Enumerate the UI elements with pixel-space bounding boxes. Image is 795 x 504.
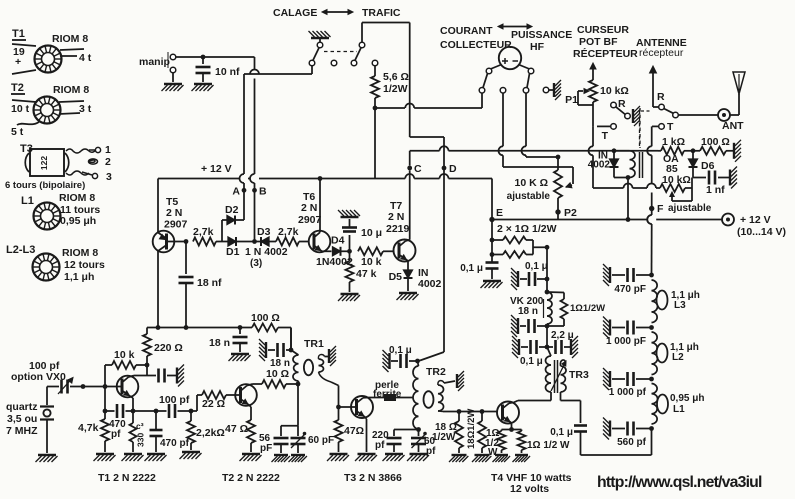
capacitor 100 pf VXO (variable) (47, 378, 105, 395)
svg-text:4002: 4002 (418, 278, 442, 290)
svg-text:3: 3 (106, 171, 112, 183)
svg-text:2,7k: 2,7k (278, 226, 299, 238)
capacitor 560 pf (612, 422, 654, 449)
svg-text:TR2: TR2 (426, 366, 446, 378)
svg-text:1 kΩ: 1 kΩ (662, 136, 685, 148)
ground (18 ohm a) (449, 455, 468, 462)
svg-text:CURSEUR: CURSEUR (577, 24, 629, 36)
potentiometer P1 10 k ohm (565, 63, 629, 126)
node F (649, 203, 664, 215)
svg-text:0,1 μ: 0,1 μ (460, 263, 483, 274)
ground (60 pF) (289, 455, 307, 462)
ground (100 ohm) (734, 140, 741, 162)
meter terminal left (483, 68, 492, 87)
wire (shunt to meter) (373, 93, 482, 110)
svg-text:2 N: 2 N (388, 211, 404, 223)
switch contact T (right) (652, 121, 674, 133)
svg-text:1 000 pf: 1 000 pf (609, 387, 647, 398)
capacitor 0,1 u (TR3) (520, 326, 549, 367)
svg-text:122: 122 (39, 156, 49, 170)
capacitor 18 nf (179, 239, 223, 327)
svg-text:+ 12 V: + 12 V (740, 214, 771, 226)
svg-text:470 pf: 470 pf (160, 438, 190, 449)
diode D1 (216, 237, 288, 269)
svg-text:100 Ω: 100 Ω (251, 312, 280, 324)
node E (489, 207, 503, 222)
svg-text:P2: P2 (564, 207, 577, 219)
ground (2,2k) (180, 452, 202, 459)
svg-text:10 k: 10 k (114, 349, 135, 361)
svg-text:7 MHZ: 7 MHZ (6, 425, 38, 437)
svg-text:manip: manip (139, 56, 170, 68)
ground (0,1 u PA) (511, 268, 518, 290)
choke VK 200 (510, 279, 552, 324)
connector +12V input (722, 214, 786, 239)
meter contact right (523, 88, 529, 94)
svg-text:330: 330 (136, 433, 146, 447)
svg-text:RIOM 8: RIOM 8 (62, 247, 98, 259)
diode IN 4002 (relay) (588, 148, 628, 177)
label COURANT COLLECTEUR (440, 25, 512, 51)
svg-text:récepteur: récepteur (639, 47, 684, 59)
wire hop (manip over contact wire) (250, 70, 259, 75)
svg-text:RÉCEPTEUR: RÉCEPTEUR (573, 47, 638, 60)
svg-text:220 Ω: 220 Ω (154, 342, 183, 354)
resistor 1 ohm a (490, 237, 533, 244)
capacitor 10 nf (196, 55, 241, 82)
resistor C3 330 (emitter) (130, 409, 146, 452)
svg-text:ANT: ANT (722, 120, 744, 132)
ground (60 pf TR2) (407, 454, 429, 461)
svg-text:PUISSANCE: PUISSANCE (511, 29, 572, 41)
svg-text:CALAGE: CALAGE (273, 7, 317, 19)
svg-text:4002: 4002 (588, 160, 611, 171)
capacitor 0,1 u (E) (460, 263, 498, 280)
svg-text:47Ω: 47Ω (344, 425, 364, 437)
svg-text:COURANT: COURANT (440, 25, 493, 37)
svg-text:4,7k: 4,7k (78, 422, 99, 434)
ground (quartz) (36, 455, 58, 462)
capacitor 1000 pF (606, 321, 654, 348)
svg-text:D3: D3 (257, 226, 271, 238)
svg-text:10 nf: 10 nf (215, 66, 240, 78)
ground (47 k) (338, 294, 360, 301)
transistor T7 2N2219 (386, 171, 416, 271)
resistor 18 ohm 1/2W b (459, 409, 486, 453)
arrow (recepteur) (650, 66, 657, 107)
inductor L1 (toroid legend) (21, 192, 100, 230)
capacitor 1 nf (693, 171, 729, 197)
svg-text:60 pF: 60 pF (308, 435, 334, 446)
switch contact 1 (309, 60, 315, 66)
capacitor 56 pF (259, 426, 289, 454)
svg-text:2,7k: 2,7k (193, 226, 214, 238)
ground (10 u, inverted) (338, 210, 360, 217)
svg-text:47 Ω: 47 Ω (225, 423, 248, 435)
resistor 2,7k (T5) (193, 226, 216, 246)
resistor 47 ohm (T3 base) (335, 405, 365, 452)
ground (18 n PA) (511, 315, 518, 337)
svg-text:2 × 1Ω 1/2W: 2 × 1Ω 1/2W (497, 223, 557, 235)
node (VXO wire) (81, 384, 86, 389)
ground (TR1 secondary) (329, 346, 336, 366)
switch contact T (left) (597, 124, 616, 142)
svg-text:R: R (618, 98, 626, 110)
capacitor 18 n (TR1) (268, 328, 293, 370)
switch pole (left, to hatch) (616, 106, 640, 126)
svg-text:1/2W: 1/2W (432, 432, 456, 443)
inductor L2 (filter) (652, 332, 699, 375)
ground (0,1 u TR3) (512, 336, 519, 358)
resistor 100 ohm (driver feed) (240, 312, 291, 350)
svg-text:2 N: 2 N (166, 207, 182, 219)
resistor 47 k (346, 251, 377, 292)
label RIOM 8 (T1) (52, 33, 88, 45)
ground (47 ohm T3) (327, 454, 349, 461)
transistor T1 2N2222 (98, 376, 156, 485)
credit URL (597, 474, 762, 491)
svg-text:T1: T1 (12, 28, 25, 40)
capacitor 10 u (T7 base) (342, 219, 382, 254)
svg-text:5 t: 5 t (11, 126, 24, 138)
resistor 18 ohm 1/2W a (432, 409, 463, 453)
ground (1 ohm a) (493, 455, 511, 462)
node (TR2 primary bottom) (416, 427, 421, 432)
svg-text:2907: 2907 (298, 214, 322, 226)
ground (T3 emitter) (355, 454, 377, 461)
connector ANT (718, 109, 744, 132)
mechanical link (switch, dashed) (324, 51, 357, 53)
svg-text:470 pF: 470 pF (614, 284, 646, 295)
svg-text:D1: D1 (226, 246, 240, 258)
diode D4 1N4002 (316, 235, 353, 269)
ground (manip) (162, 84, 184, 91)
ground (18 n osc) (229, 354, 251, 361)
ground (560 pf) (603, 418, 610, 440)
wire (relay to +12V rail) (626, 178, 631, 222)
capacitor 220 pf (372, 429, 419, 452)
capacitor 470 pF (612, 268, 654, 295)
resistor 220 ohm (143, 328, 183, 377)
svg-text:E: E (496, 207, 503, 219)
capacitor 2,2 u (547, 330, 574, 354)
switch contact R (left) (611, 98, 626, 110)
transformer TR2 (413, 361, 459, 429)
wire (keyed supply rail) (147, 325, 240, 330)
node C (407, 163, 422, 175)
transformer T2 (toroid legend) (11, 82, 92, 138)
quartz 3,5 ou 7 MHZ (6, 387, 54, 454)
wire (+12V rail) (158, 174, 492, 220)
ground (47 ohm T2) (240, 454, 262, 461)
svg-text:T: T (602, 130, 609, 142)
arrow CALAGE-TRAFIC (322, 10, 353, 15)
svg-text:10 t: 10 t (11, 103, 30, 115)
resistor 1 ohm 1/2W (VK200) (547, 292, 605, 326)
ground (collector bypass) (177, 365, 184, 387)
resistor 10 k (osc) (105, 349, 149, 387)
wire (rail C-relay) (410, 146, 658, 151)
svg-text:(3): (3) (250, 258, 262, 269)
wire (TR1/T2 node down) (281, 384, 298, 426)
label RIOM 8 (T2) (53, 84, 89, 96)
ground (470pf) (145, 454, 167, 461)
label CURSEUR POT BF RECEPTEUR (573, 24, 638, 60)
ground (56 pF) (272, 455, 290, 462)
svg-text:T2 2 N 2222: T2 2 N 2222 (222, 472, 280, 484)
resistor 10 k ohm ajustable (660, 174, 712, 214)
svg-text:RIOM 8: RIOM 8 (53, 84, 89, 96)
svg-text:100 Ω: 100 Ω (701, 136, 730, 148)
svg-text:2,2kΩ: 2,2kΩ (196, 427, 225, 439)
meter contact mid (500, 88, 506, 94)
svg-text:1/2W: 1/2W (383, 83, 408, 95)
node (TR1 primary bottom) (296, 382, 301, 387)
capacitor 0,1 u (output) (550, 426, 587, 456)
svg-text:0,1 μ: 0,1 μ (525, 261, 548, 272)
switch contact 3 (351, 60, 357, 66)
label PUISSANCE HF (511, 29, 572, 53)
inductor L2-L3 (toroid legend) (6, 244, 105, 283)
svg-text:3,5 ou: 3,5 ou (7, 413, 37, 425)
svg-text:http://www.qsl.net/va3iul: http://www.qsl.net/va3iul (597, 474, 762, 491)
ground (CALAGE pole) (309, 31, 331, 42)
label option VXO (11, 360, 66, 383)
capacitor (T1 collector bypass) (147, 369, 176, 383)
ground (18 ohm b) (472, 455, 491, 462)
svg-text:P1: P1 (565, 94, 578, 106)
capacitor 18 n (PA) (520, 319, 549, 333)
svg-text:10 kΩ: 10 kΩ (662, 174, 691, 186)
svg-text:+ 12 V: + 12 V (201, 163, 232, 175)
capacitor 18 n (osc rail) (209, 325, 248, 352)
svg-text:18 n: 18 n (209, 337, 230, 349)
svg-text:C: C (414, 163, 422, 175)
wire (TR1 sec to T3 base) (338, 386, 340, 408)
antenna symbol (730, 72, 745, 115)
svg-text:HF: HF (530, 41, 545, 53)
svg-text:22 Ω: 22 Ω (202, 398, 225, 410)
svg-text:ajustable: ajustable (668, 203, 712, 214)
svg-text:RIOM 8: RIOM 8 (52, 33, 88, 45)
resistor 1 ohm 1/2 W a (T4) (485, 427, 514, 458)
node P2 (555, 207, 577, 220)
wire (D to TR2) (418, 166, 445, 362)
node B (252, 186, 267, 198)
wire (T4 collector to TR3) (518, 392, 551, 401)
svg-text:10 μ: 10 μ (361, 227, 382, 239)
svg-text:(10...14 V): (10...14 V) (737, 226, 786, 238)
svg-text:L1: L1 (673, 404, 685, 415)
svg-text:1Ω 1/2 W: 1Ω 1/2 W (527, 440, 570, 451)
wire (contact1 to node A) (240, 66, 313, 218)
arrow (meter range) (498, 24, 532, 29)
meter contact left (479, 88, 485, 94)
wire (meter right to pot top) (522, 93, 559, 157)
svg-text:T2: T2 (11, 82, 24, 94)
transistor T2 2N2222 (222, 384, 280, 484)
svg-text:T: T (667, 121, 674, 133)
transformer T3 (bobbin legend) (5, 143, 112, 191)
svg-text:1 nf: 1 nf (706, 184, 725, 196)
resistor 1 k ohm (658, 136, 693, 155)
svg-text:D: D (449, 163, 457, 175)
svg-text:D2: D2 (225, 204, 239, 216)
node A (232, 186, 246, 198)
svg-text:quartz: quartz (6, 401, 38, 413)
transistor T6 2N2907 (298, 176, 332, 252)
ground (1 nf) (730, 167, 737, 189)
mechanical link (poles, dashed) (641, 110, 652, 112)
svg-text:ajustable: ajustable (507, 191, 551, 202)
ground (1 ohm b) (513, 455, 531, 462)
resistor 2,2k ohm (187, 409, 225, 450)
relay coil (614, 151, 643, 180)
wire (shunt to +12V rail) (374, 108, 376, 179)
wire (node B drop) (250, 57, 255, 242)
svg-text:18 n: 18 n (518, 306, 538, 317)
svg-text:560 pf: 560 pf (617, 437, 647, 448)
resistor 5,6 ohm 1/2W (371, 66, 409, 108)
wire (manip to node B) (176, 56, 255, 58)
contact stub (BF recepteur) (543, 80, 561, 100)
meter terminal right (527, 68, 534, 87)
diode D3 (252, 226, 276, 246)
diode D5 IN4002 (389, 267, 442, 291)
ground (0,1 u E) (481, 281, 503, 288)
svg-text:T3 2 N 3866: T3 2 N 3866 (344, 472, 402, 484)
svg-text:option VX0: option VX0 (11, 371, 66, 383)
node D (442, 163, 457, 175)
ground (2,2 u) (571, 336, 578, 358)
svg-text:F: F (657, 203, 664, 215)
svg-text:W: W (488, 447, 498, 458)
svg-text:pf: pf (375, 440, 385, 451)
svg-text:A: A (232, 186, 240, 198)
svg-text:2 N: 2 N (301, 202, 317, 214)
svg-text:0,95 μh: 0,95 μh (60, 215, 96, 227)
ground (0,1 u TR2) (383, 350, 390, 372)
svg-text:1 000 pF: 1 000 pF (606, 336, 646, 347)
resistor 2,7k (T6) (276, 226, 308, 246)
ground (1000 pF) (603, 317, 610, 339)
svg-text:TR1: TR1 (304, 338, 324, 350)
transistor T4 VHF 10 watts (482, 401, 572, 496)
svg-text:0,1 μ: 0,1 μ (550, 427, 573, 438)
svg-text:D4: D4 (331, 235, 345, 247)
capacitor 0,1 u (PA rail) (520, 245, 549, 286)
ground (TR2 secondary) (457, 371, 464, 391)
svg-text:TR3: TR3 (569, 369, 589, 381)
wire (output to filter) (581, 429, 652, 456)
resistor 4,7k (78, 387, 109, 453)
svg-text:+: + (15, 56, 21, 68)
svg-text:12 volts: 12 volts (510, 483, 549, 495)
wire (rail to C) (409, 151, 411, 166)
diode D2 (222, 204, 244, 242)
transformer TR3 (546, 347, 589, 393)
transformer T1 (toroid legend) (12, 28, 92, 74)
wire (E down) (491, 220, 493, 263)
inductor L3 (filter) (652, 280, 700, 323)
switch contact 2 (331, 60, 337, 66)
svg-text:L2-L3: L2-L3 (6, 244, 35, 256)
resistor 10 k (T7 base) (358, 247, 395, 268)
mechanical link (relay, dashed) (639, 108, 641, 148)
ground (220 pf) (383, 454, 405, 461)
svg-text:100 pf: 100 pf (159, 394, 190, 406)
wire (+12V input rail) (492, 215, 722, 224)
svg-text:R: R (657, 91, 665, 103)
svg-text:COLLECTEUR: COLLECTEUR (440, 39, 512, 51)
svg-text:12 tours: 12 tours (64, 259, 105, 271)
svg-text:18 n: 18 n (270, 358, 290, 369)
wire (T contact to filter) (647, 126, 652, 275)
label TRAFIC (362, 7, 401, 19)
svg-text:3 t: 3 t (79, 103, 92, 115)
svg-text:1,1 μh: 1,1 μh (64, 271, 94, 283)
capacitor 0,1 u (TR2 top) (389, 345, 420, 368)
svg-text:L1: L1 (21, 195, 34, 207)
ground (D5) (397, 293, 419, 300)
switch pole CALAGE (left) (313, 42, 323, 60)
svg-text:pf: pf (426, 446, 436, 457)
svg-text:pf: pf (111, 429, 121, 440)
svg-text:TRAFIC: TRAFIC (362, 7, 401, 19)
svg-text:B: B (259, 186, 267, 198)
capacitor 470 pf (base) (105, 404, 133, 440)
svg-text:D6: D6 (701, 160, 715, 172)
capacitor 60 pf (TR2 trimmer) (411, 430, 436, 458)
capacitor 60 pF (trimmer) (291, 426, 335, 453)
svg-text:2907: 2907 (164, 219, 188, 231)
svg-text:10 k: 10 k (361, 256, 382, 268)
resistor 10 ohm (262, 368, 298, 388)
transistor T3 2N3866 (339, 396, 402, 484)
svg-text:18 nf: 18 nf (197, 277, 222, 289)
svg-text:18Ω1/2W: 18Ω1/2W (466, 409, 477, 449)
label ANTENNE recepteur (636, 37, 687, 59)
label 2x1ohm (497, 223, 557, 235)
svg-text:1 N 4002: 1 N 4002 (245, 246, 288, 258)
inductor L1 (filter) (652, 384, 705, 425)
svg-text:0,95 μh: 0,95 μh (670, 393, 704, 404)
svg-text:ferrite: ferrite (373, 389, 402, 400)
svg-text:2219: 2219 (386, 223, 410, 235)
transformer TR1 (291, 338, 339, 386)
ground (470 pF) (603, 264, 610, 286)
svg-text:47 k: 47 k (356, 268, 377, 280)
svg-text:1Ω1/2W: 1Ω1/2W (570, 303, 605, 314)
svg-text:0,1 μ: 0,1 μ (389, 345, 412, 356)
svg-text:2: 2 (105, 156, 111, 168)
svg-text:5,6 Ω: 5,6 Ω (383, 71, 409, 83)
svg-text:D5: D5 (389, 271, 403, 283)
svg-text:T1 2 N 2222: T1 2 N 2222 (98, 472, 156, 484)
resistor 1 ohm b (490, 240, 547, 258)
svg-text:10 K Ω: 10 K Ω (514, 177, 548, 189)
svg-text:pF: pF (260, 443, 272, 454)
diode D6 OA 85 (663, 151, 715, 178)
wire (meter mid to pot wiper) (499, 93, 574, 188)
ferrite bead (perle ferrite) (369, 380, 413, 401)
ground (18 n TR1) (259, 339, 266, 361)
resistor 1 ohm 1/2 W b (T4) (512, 430, 571, 454)
meter M1 (+/-) (491, 47, 530, 69)
capacitor 1000 pf (609, 372, 654, 398)
label +12V rail (201, 163, 232, 175)
svg-text:0,1 μ: 0,1 μ (520, 356, 543, 367)
